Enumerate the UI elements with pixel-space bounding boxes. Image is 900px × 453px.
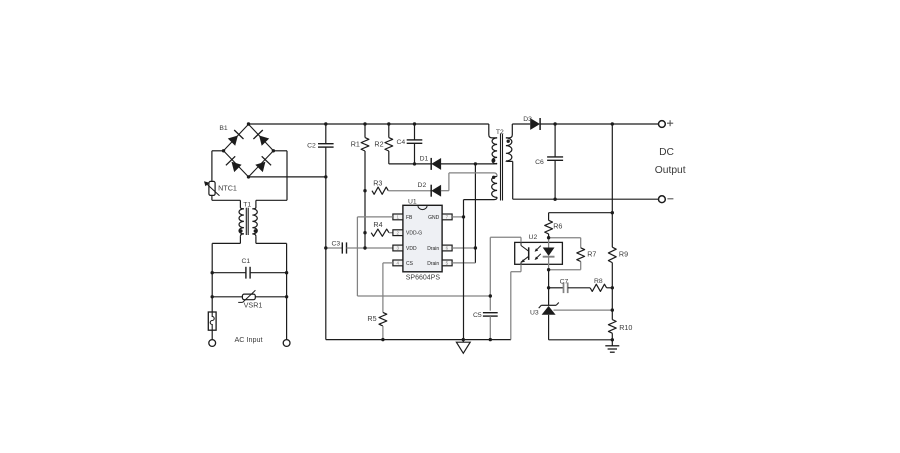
- pin label VDD-G: [406, 231, 422, 237]
- pin label GND: [428, 215, 440, 221]
- node: [363, 189, 366, 192]
- wire: [474, 164, 476, 263]
- node: [553, 122, 556, 125]
- label R3: [373, 178, 382, 187]
- node: [611, 122, 614, 125]
- svg-text:FB: FB: [406, 215, 413, 221]
- wire: [549, 238, 581, 248]
- resistor R2: [385, 138, 393, 151]
- resistor R4: [371, 229, 389, 236]
- node: [285, 295, 288, 298]
- wire: [388, 124, 390, 138]
- wire: [212, 273, 286, 297]
- resistor R3: [372, 187, 388, 194]
- opto light arrows: [535, 246, 541, 260]
- pin label Drain: [427, 261, 439, 267]
- wire: [415, 163, 432, 165]
- wire: [364, 151, 366, 248]
- wire: [554, 124, 556, 157]
- wire: [489, 316, 491, 339]
- label U2: [529, 234, 538, 241]
- svg-text:R9: R9: [619, 250, 628, 259]
- resistor R6: [545, 220, 553, 234]
- wire: [549, 287, 564, 289]
- node: [611, 308, 614, 311]
- svg-text:D2: D2: [418, 182, 427, 189]
- svg-text:C6: C6: [535, 159, 544, 166]
- label R4: [373, 220, 382, 229]
- label AC Input: [235, 335, 263, 344]
- wire: [549, 262, 581, 270]
- DC output + terminal: [659, 120, 674, 127]
- label D1: [420, 156, 429, 163]
- node: [474, 246, 477, 249]
- wire: [326, 339, 511, 341]
- wire: [548, 234, 550, 238]
- label C1: [241, 258, 250, 265]
- wire: [549, 212, 613, 214]
- wire: [211, 330, 213, 339]
- svg-text:C3: C3: [331, 240, 340, 247]
- svg-text:R5: R5: [367, 314, 376, 323]
- svg-text:C5: C5: [473, 312, 482, 319]
- fuse F1: [208, 312, 216, 330]
- node: [324, 246, 327, 249]
- wire: [554, 309, 613, 311]
- varistor VSR1: [238, 290, 255, 302]
- svg-text:R7: R7: [587, 250, 596, 259]
- node: [272, 149, 275, 152]
- svg-text:Drain: Drain: [427, 261, 439, 267]
- node: [247, 175, 250, 178]
- capacitor C3: [342, 242, 346, 253]
- wire: [388, 190, 431, 192]
- resistor R1: [361, 138, 369, 151]
- node: [547, 286, 550, 289]
- wire: [452, 247, 475, 249]
- capacitor C6: [547, 157, 563, 160]
- svg-text:U1: U1: [408, 198, 417, 205]
- wire: [493, 162, 498, 165]
- wire: [554, 160, 556, 199]
- svg-text:R2: R2: [374, 140, 383, 149]
- label C6: [535, 159, 544, 166]
- label C3: [331, 240, 340, 247]
- node: [222, 149, 225, 152]
- svg-text:U2: U2: [529, 234, 538, 241]
- label R6: [553, 222, 562, 231]
- wire: [512, 123, 530, 125]
- wire: [464, 197, 498, 339]
- label DC Output: [655, 147, 686, 176]
- capacitor C7: [564, 283, 568, 294]
- ground: [605, 346, 619, 352]
- op-amp U1 body: [403, 205, 442, 271]
- wire: [256, 236, 287, 273]
- svg-text:R10: R10: [619, 323, 632, 332]
- svg-text:D1: D1: [420, 156, 429, 163]
- svg-text:D3: D3: [523, 116, 532, 123]
- svg-text:B1: B1: [219, 125, 228, 132]
- pin 7: [442, 214, 452, 220]
- label C5: [473, 312, 482, 319]
- pin 3: [393, 245, 403, 251]
- resistor R5: [379, 312, 387, 326]
- pin label FB: [406, 215, 413, 221]
- diode D3: [531, 118, 541, 130]
- wire: [382, 326, 384, 340]
- wire: [364, 124, 366, 138]
- opto LED: [543, 238, 555, 270]
- pin label Drain: [427, 246, 439, 252]
- wire: [548, 270, 550, 306]
- wire: [611, 124, 613, 247]
- wire: [383, 263, 393, 313]
- DC output - terminal: [659, 196, 674, 203]
- transformer T2: [492, 134, 512, 201]
- svg-text:R3: R3: [373, 178, 382, 187]
- node: [547, 236, 550, 239]
- label D3: [523, 116, 532, 123]
- wire: [414, 143, 416, 164]
- label B1: [219, 125, 228, 132]
- label T1: [243, 201, 251, 208]
- wire: [475, 163, 492, 165]
- wire: [607, 287, 613, 289]
- node: [553, 198, 556, 201]
- svg-text:VDD: VDD: [406, 246, 417, 252]
- node: [381, 338, 384, 341]
- pin 6: [442, 245, 452, 251]
- node: [247, 122, 250, 125]
- node: [462, 215, 465, 218]
- wire: [441, 173, 491, 191]
- svg-text:AC Input: AC Input: [235, 335, 263, 344]
- capacitor C5: [483, 313, 498, 316]
- node: [324, 122, 327, 125]
- wire: [540, 123, 659, 125]
- label R9: [619, 250, 628, 259]
- label SP6604PS: [406, 275, 441, 282]
- node: [611, 338, 614, 341]
- diode D1: [431, 158, 441, 170]
- node: [363, 231, 366, 234]
- node: [363, 246, 366, 249]
- wire: [212, 236, 240, 273]
- shunt regulator U3: [539, 303, 559, 315]
- pin label CS: [406, 261, 414, 267]
- ground: [456, 340, 470, 354]
- label NTC1: [218, 184, 237, 193]
- thermistor NTC1: [204, 181, 220, 195]
- node: [211, 271, 214, 274]
- wire: [611, 263, 613, 320]
- pin 1: [393, 214, 403, 220]
- capacitor C4: [407, 140, 423, 143]
- wire: [491, 173, 497, 177]
- AC terminal: [209, 340, 216, 347]
- resistor R7: [577, 248, 585, 262]
- wire: [347, 247, 394, 249]
- svg-text:U3: U3: [530, 310, 539, 317]
- bridge rectifier B1: [224, 124, 274, 177]
- pin 2: [393, 230, 403, 236]
- svg-text:C1: C1: [241, 258, 250, 265]
- svg-text:CS: CS: [406, 261, 414, 267]
- node: [363, 122, 366, 125]
- wire: [506, 124, 512, 138]
- svg-text:R8: R8: [594, 278, 603, 285]
- common-mode choke T1: [239, 208, 257, 237]
- label C4: [396, 139, 405, 146]
- node: [285, 271, 288, 274]
- svg-text:R1: R1: [351, 140, 360, 149]
- wire: [249, 123, 489, 125]
- label R1: [351, 140, 360, 149]
- wire: [441, 163, 476, 165]
- label R7: [587, 250, 596, 259]
- wire: [511, 264, 521, 339]
- node: [211, 295, 214, 298]
- wire: [212, 151, 224, 182]
- svg-text:Drain: Drain: [427, 246, 439, 252]
- wire: [212, 296, 286, 298]
- wire: [568, 287, 590, 289]
- diode D2: [431, 185, 441, 197]
- capacitor C1: [246, 267, 250, 279]
- svg-text:SP6604PS: SP6604PS: [406, 275, 441, 282]
- wire: [611, 333, 613, 345]
- resistor R10: [608, 320, 616, 334]
- label D2: [418, 182, 427, 189]
- optocoupler U2 body: [515, 242, 563, 264]
- svg-text:T2: T2: [496, 129, 504, 136]
- node: [611, 286, 614, 289]
- node: [324, 175, 327, 178]
- label R8: [594, 278, 603, 285]
- node: [413, 122, 416, 125]
- pin 5: [442, 260, 452, 266]
- label R5: [367, 314, 376, 323]
- svg-text:Output: Output: [655, 165, 686, 176]
- wire: [256, 151, 287, 208]
- wire: [452, 216, 463, 218]
- svg-text:C4: C4: [396, 139, 405, 146]
- svg-text:C7: C7: [560, 278, 569, 285]
- svg-text:R6: R6: [553, 222, 562, 231]
- node: [489, 294, 492, 297]
- wire: [249, 176, 326, 178]
- wire: [414, 124, 416, 140]
- resistor R9: [608, 247, 616, 262]
- resistor R8: [590, 284, 607, 291]
- svg-text:DC: DC: [659, 147, 674, 158]
- label C2: [307, 143, 316, 150]
- wire: [548, 213, 550, 221]
- wire: [212, 297, 286, 340]
- wire: [389, 151, 415, 164]
- node: [462, 338, 465, 341]
- pin 4: [393, 260, 403, 266]
- pin label VDD: [406, 246, 417, 252]
- wire: [549, 315, 613, 340]
- label C7: [560, 278, 569, 285]
- node: [611, 211, 614, 214]
- label R2: [374, 140, 383, 149]
- wire: [326, 247, 343, 249]
- label T2: [496, 129, 504, 136]
- wire: [325, 124, 327, 144]
- label U1: [408, 198, 417, 205]
- AC terminal: [283, 340, 290, 347]
- svg-text:VSR1: VSR1: [244, 301, 263, 310]
- node: [413, 162, 416, 165]
- node: [474, 162, 477, 165]
- capacitor C2: [318, 144, 334, 147]
- svg-text:T1: T1: [243, 201, 251, 208]
- opto phototransistor: [521, 242, 529, 264]
- wire: [452, 262, 475, 264]
- label VSR1: [244, 301, 263, 310]
- node: [387, 122, 390, 125]
- wire: [389, 232, 393, 234]
- label R10: [619, 323, 632, 332]
- wire: [325, 147, 327, 339]
- wire: [357, 217, 490, 296]
- label U3: [530, 310, 539, 317]
- node: [489, 338, 492, 341]
- svg-text:NTC1: NTC1: [218, 184, 237, 193]
- wire: [489, 124, 497, 138]
- svg-text:C2: C2: [307, 143, 316, 150]
- wire: [489, 296, 491, 311]
- svg-text:R4: R4: [373, 220, 382, 229]
- svg-text:VDD-G: VDD-G: [406, 231, 422, 237]
- wire: [506, 161, 659, 199]
- node: [547, 268, 550, 271]
- svg-text:GND: GND: [428, 215, 440, 221]
- wire: [212, 195, 241, 207]
- wire: [212, 272, 286, 274]
- wire: [490, 237, 521, 296]
